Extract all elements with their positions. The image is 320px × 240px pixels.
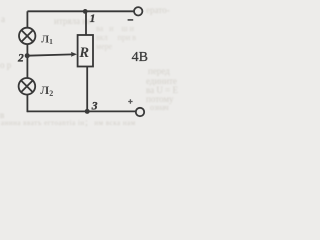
minus sign (128, 19, 134, 21)
node 3 junction dot (85, 109, 90, 114)
resistor R (rectangle) (78, 35, 93, 67)
faint page bleed-through text (decorative) (54, 16, 91, 26)
wire: top horizontal from top-left corner to negative terminal (27, 10, 133, 12)
wire: vertical stub resistor bottom to node 3 (86, 66, 88, 111)
lamp Л2 (19, 78, 36, 95)
wire: bottom horizontal from bottom-left corner to positive terminal (27, 110, 135, 112)
wire: left branch vertical (through lamps) (26, 11, 28, 112)
svg-text:2: 2 (17, 53, 24, 65)
lamp Л1 (19, 28, 35, 44)
node 1 junction dot (83, 9, 88, 14)
svg-text:Л2: Л2 (40, 83, 53, 98)
svg-text:3: 3 (91, 100, 98, 112)
positive terminal (bottom right) (136, 108, 144, 116)
negative terminal (top right) (134, 7, 142, 15)
svg-text:Л1: Л1 (41, 34, 53, 46)
svg-text:R: R (78, 45, 89, 61)
plus sign (128, 99, 132, 103)
svg-text:1: 1 (90, 13, 96, 25)
wire: wiper arrow from node 2 to resistor (27, 54, 72, 55)
svg-text:4В: 4В (132, 50, 148, 65)
wire: vertical stub node 1 to resistor top (85, 11, 87, 35)
node 2 junction dot (25, 53, 30, 58)
